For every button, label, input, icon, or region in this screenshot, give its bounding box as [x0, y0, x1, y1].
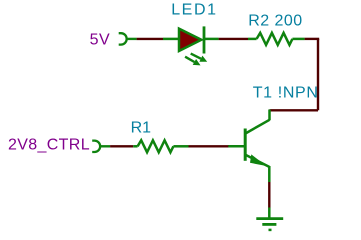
LED1 light arrow upper: [191, 54, 201, 59]
svg-text:5V: 5V: [90, 31, 111, 48]
wire 2V8_CTRL to R1: [110, 145, 133, 147]
resistor R1: [133, 140, 188, 152]
R1 left pin: [133, 145, 137, 148]
ground bar 3: [269, 229, 272, 232]
ground bar 1: [256, 217, 283, 220]
LED LED1: [163, 26, 219, 65]
wire R1 to T1 base: [189, 145, 229, 147]
T1 base bar: [244, 129, 247, 161]
svg-text:R1: R1: [131, 119, 152, 136]
T1 emitter pin vertical: [268, 166, 271, 182]
wire 5V to LED1 anode: [137, 38, 163, 40]
port connector 5V: [119, 33, 127, 44]
wire T1 emitter to ground (dark): [268, 182, 270, 208]
LED1 cathode pin: [204, 38, 219, 41]
T1 emitter arrowhead: [250, 154, 267, 166]
T1 emitter diagonal: [245, 155, 269, 167]
pin 2V8_CTRL port: [100, 145, 110, 147]
wire ground stub (green): [268, 208, 271, 219]
R2 left pin: [248, 38, 257, 41]
R1 right pin: [173, 145, 188, 148]
LED1 light arrow lower: [185, 57, 194, 62]
ground bar 2: [262, 223, 276, 226]
transistor T1: [228, 110, 270, 183]
svg-text:T1 !NPN: T1 !NPN: [253, 84, 319, 101]
LED1 cathode bar: [203, 26, 206, 53]
LED1 triangle: [179, 29, 201, 51]
wire corner down (vertical): [317, 39, 319, 110]
port connector 2V8_CTRL: [92, 141, 100, 152]
pin 5V port: [127, 38, 137, 40]
wire to T1 collector (horizontal): [270, 109, 319, 111]
R2 right pin: [292, 38, 304, 41]
svg-text:LED1: LED1: [171, 2, 217, 19]
wire LED1 cathode to R2: [219, 38, 248, 40]
wire R2 to corner (horizontal): [305, 38, 320, 40]
T1 collector diagonal: [245, 120, 269, 134]
R1 zigzag: [138, 140, 174, 152]
T1 base pin: [228, 145, 245, 148]
ground: [256, 219, 283, 230]
LED1 anode pin: [163, 38, 178, 41]
svg-text:R2 200: R2 200: [248, 12, 302, 29]
svg-text:2V8_CTRL: 2V8_CTRL: [8, 136, 90, 153]
T1 collector pin vertical: [268, 110, 271, 121]
resistor R2: [248, 33, 305, 45]
R2 zigzag: [257, 33, 293, 45]
